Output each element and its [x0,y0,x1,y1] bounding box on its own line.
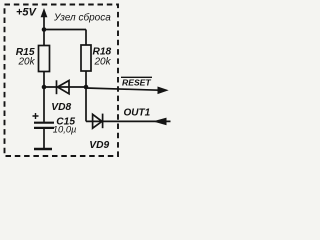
wire C15 top lead [43,87,45,122]
arrowhead OUT1 (points left) [153,118,167,126]
resistor R18 [81,45,91,71]
diode VD8 (cathode bar left, triangle pointing left) [57,80,70,94]
svg-text:10,0µ: 10,0µ [53,124,77,135]
wire R18 top lead [85,30,87,46]
dashed enclosure border [5,5,119,157]
wire VD8 horizontal [44,86,86,88]
svg-text:OUT1: OUT1 [124,108,151,119]
svg-text:20k: 20k [18,57,36,68]
svg-text:VD9: VD9 [89,140,109,151]
svg-text:20k: 20k [94,56,112,67]
diode VD9 (triangle pointing right, cathode bar right) [93,114,103,129]
power arrow +5V [41,8,48,17]
wire +5V arrow stem [43,15,45,30]
wire R15 top lead [43,30,45,46]
junction node R18/VD8/RESET [84,85,89,90]
wire R18 bottom lead [85,71,87,87]
wire right rail down [85,87,87,121]
wire C15 bottom lead [43,129,45,148]
ground bar [34,148,52,150]
arrowhead RESET (points right) [158,87,169,95]
junction node R15/VD8/C15 [42,85,47,90]
wire +5V rail top horizontal [44,29,86,31]
junction node at +5V rail [42,27,47,32]
resistor R15 [39,46,50,72]
overline for RESET [121,76,152,78]
wire R15 bottom lead [43,72,45,88]
svg-text:VD8: VD8 [51,102,71,113]
svg-text:Узел сброса: Узел сброса [53,12,111,24]
wire VD9 / OUT1 line [86,120,171,122]
svg-text:RESET: RESET [122,77,151,87]
svg-text:+5V: +5V [16,7,38,19]
capacitor plus sign [33,113,39,119]
capacitor C15 plates (polarized) [34,123,54,128]
wire RESET output [86,88,159,90]
